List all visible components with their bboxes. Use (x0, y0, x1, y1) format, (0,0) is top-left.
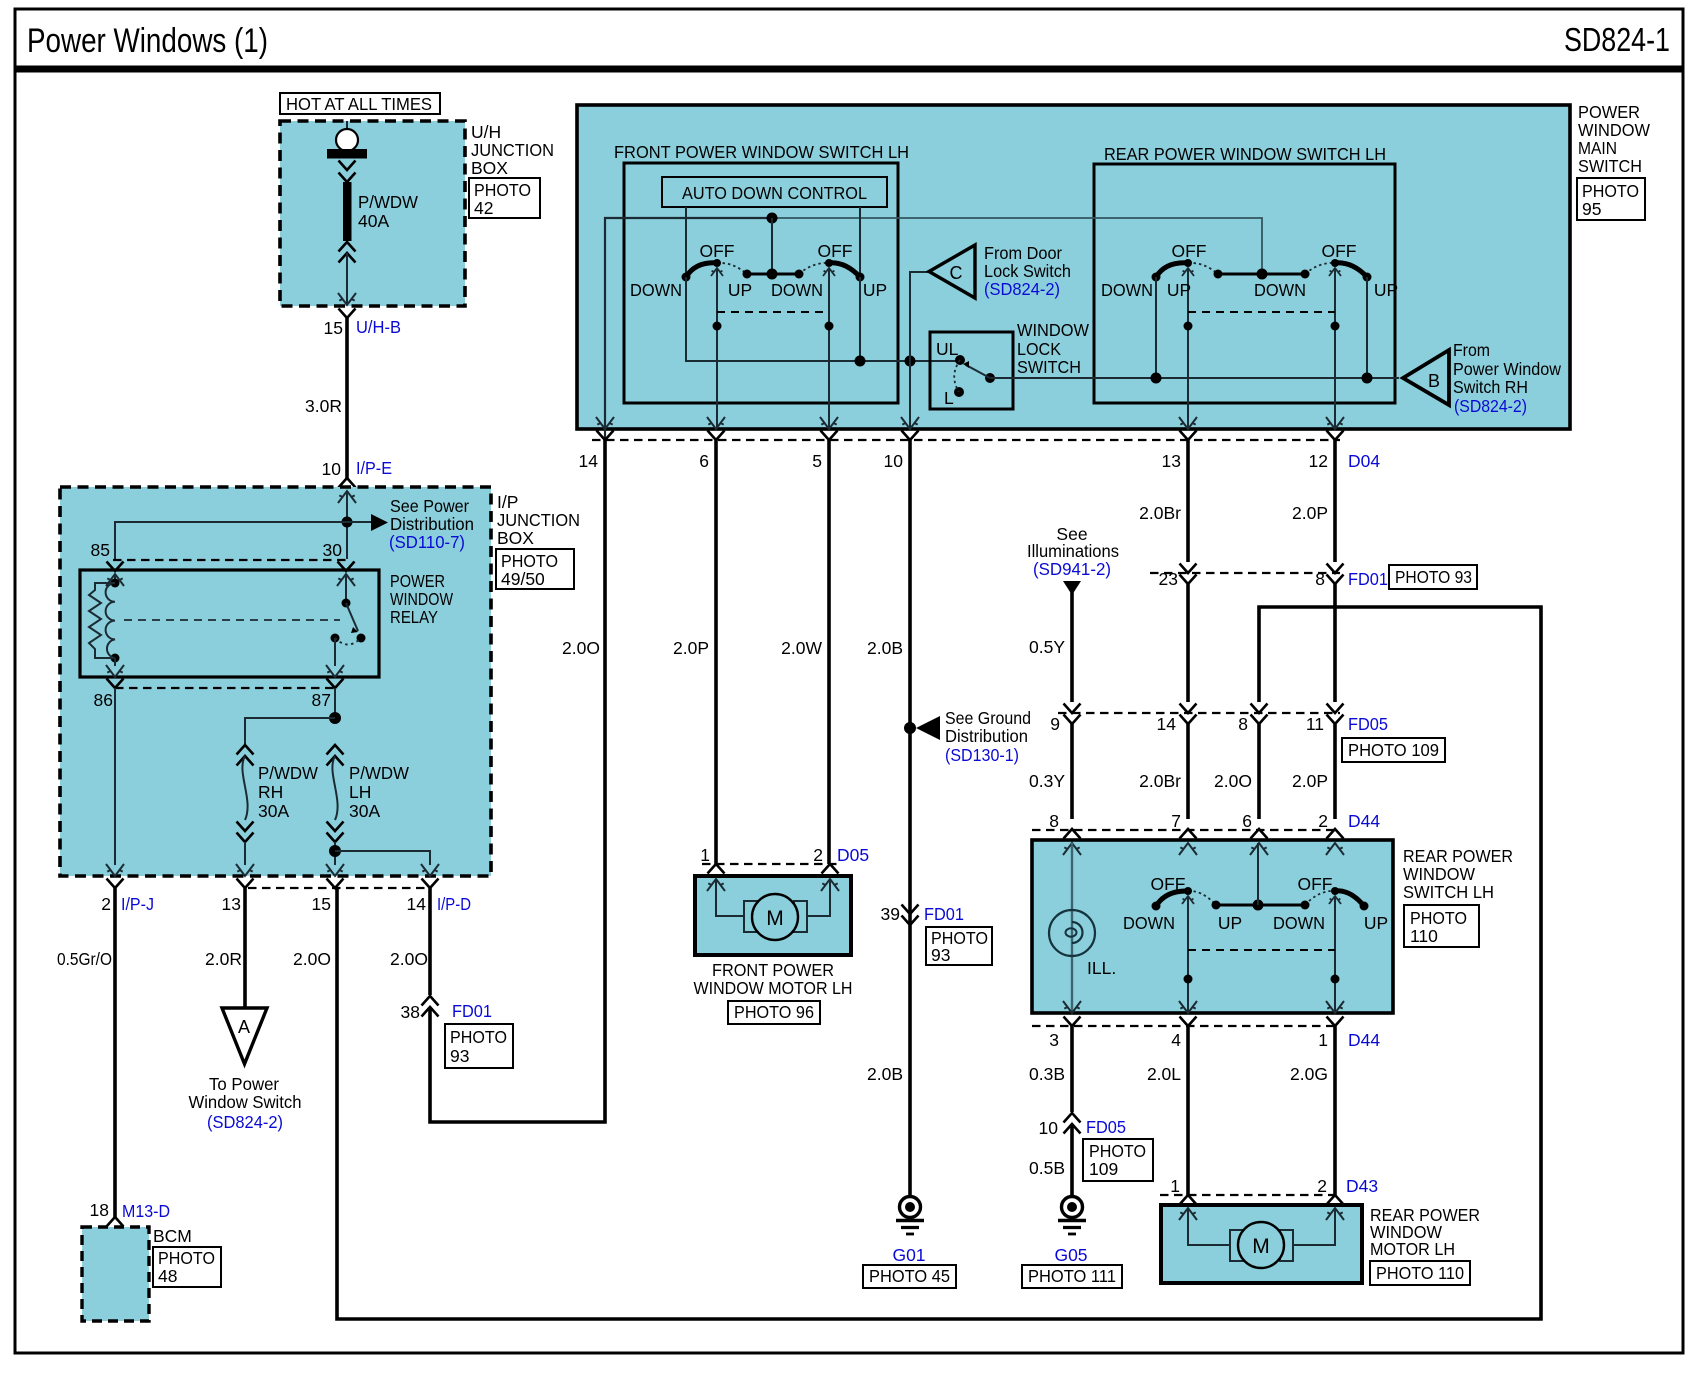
svg-text:9: 9 (1050, 714, 1060, 734)
D44 connector row dashed (1032, 829, 1340, 831)
svg-text:WINDOW: WINDOW (1017, 320, 1089, 340)
svg-text:UP: UP (728, 280, 752, 300)
svg-text:86: 86 (94, 690, 113, 710)
title separator line (15, 66, 1683, 73)
svg-text:OFF: OFF (1322, 241, 1357, 261)
D04 chevron pin6 (708, 431, 725, 441)
svg-text:30A: 30A (258, 801, 289, 821)
I/P exit arrow pin 15 (326, 864, 344, 876)
triangle A to power window switch (222, 1008, 267, 1064)
rear motor photo box PHOTO 110 (1370, 1261, 1470, 1285)
svg-text:49/50: 49/50 (501, 569, 545, 589)
svg-text:I/P: I/P (497, 492, 518, 512)
svg-text:HOT AT ALL TIMES: HOT AT ALL TIMES (286, 94, 432, 114)
D05 chevron pin1 (708, 864, 725, 874)
svg-text:2: 2 (813, 845, 823, 865)
svg-text:2.0L: 2.0L (1147, 1064, 1181, 1084)
svg-text:FD05: FD05 (1086, 1117, 1126, 1137)
ground distribution tee dot (904, 722, 916, 734)
rear lower feed wire pin6 (1257, 843, 1259, 905)
rear switch exit arrow 3 (1063, 1001, 1081, 1013)
front motor entry arrow 2 (821, 879, 839, 891)
relay exit arrow 87 (326, 665, 344, 677)
rear upper down-contact bus dot (1151, 373, 1162, 384)
svg-text:WINDOW: WINDOW (1578, 120, 1650, 140)
D43 chevron pin2 (1327, 1195, 1344, 1205)
relay switch common lead (345, 574, 347, 603)
svg-text:MOTOR LH: MOTOR LH (1370, 1239, 1455, 1259)
front middle contact bar (747, 273, 799, 276)
battery feed stub (346, 121, 348, 130)
svg-text:42: 42 (474, 198, 493, 218)
svg-text:UP: UP (1364, 913, 1388, 933)
svg-text:13: 13 (222, 894, 241, 914)
rear motor lead 1 (1188, 1208, 1230, 1245)
svg-text:2.0O: 2.0O (293, 949, 331, 969)
wire feed to rear switch gray (772, 218, 1262, 274)
HOT AT ALL TIMES box (280, 93, 440, 114)
bus tee dot pin10 (905, 356, 916, 367)
svg-text:93: 93 (931, 945, 950, 965)
svg-text:BOX: BOX (497, 528, 534, 548)
entry arrow into I/P box (338, 491, 356, 503)
svg-text:OFF: OFF (700, 241, 735, 261)
ILL lamp filament inner (1066, 928, 1077, 936)
rear motor brush right (1280, 1230, 1293, 1261)
svg-text:Distribution: Distribution (945, 726, 1028, 746)
svg-text:7: 7 (1171, 811, 1181, 831)
rear lower right toggle lever arc (1334, 891, 1364, 906)
D43 connector row dashed (1160, 1194, 1340, 1196)
relay lever arrowhead (351, 627, 358, 633)
front mechanical dashed link (717, 311, 829, 313)
svg-text:L: L (944, 388, 954, 408)
svg-text:PHOTO: PHOTO (158, 1248, 215, 1268)
svg-text:2.0O: 2.0O (1214, 771, 1252, 791)
wire split to RH fuse (245, 718, 335, 744)
svg-text:D43: D43 (1346, 1176, 1378, 1196)
FD05-9 chevrons (1064, 704, 1081, 725)
svg-text:85: 85 (91, 540, 110, 560)
G01 photo box PHOTO 45 (863, 1265, 956, 1288)
chevrons below fuse (339, 242, 356, 252)
connector FD01-38 chevrons (422, 996, 439, 1017)
svg-text:PHOTO 96: PHOTO 96 (734, 1002, 814, 1022)
wire 2.0P upper (1333, 440, 1337, 562)
svg-text:8: 8 (1238, 714, 1248, 734)
relay mechanical dashed link (124, 619, 340, 621)
rear upper mechanical dashed link (1188, 311, 1335, 313)
relay pin 86 chevron (107, 679, 124, 689)
front right link dot (825, 322, 834, 331)
relay entry arrow 85 (106, 574, 124, 586)
main switch exit arrows (596, 417, 1344, 429)
wire 3.0R (345, 318, 349, 478)
relay coil bottom dot (111, 654, 120, 663)
svg-text:A: A (238, 1017, 250, 1037)
rear power window switch LH box (1032, 840, 1393, 1013)
svg-text:To Power: To Power (209, 1074, 279, 1094)
wire 2.0O pin 14 riser (428, 888, 432, 995)
bus tee dot up-contact (855, 356, 866, 367)
lock switch UL contact dot (955, 355, 965, 365)
FD01-8 chevrons (1327, 564, 1344, 585)
wire 0.3Y lower (1070, 724, 1074, 819)
svg-text:14: 14 (1157, 714, 1177, 734)
svg-text:2.0Br: 2.0Br (1139, 503, 1181, 523)
svg-text:JUNCTION: JUNCTION (497, 510, 580, 530)
D44 chevron pin6 (1251, 829, 1268, 839)
svg-text:P/WDW: P/WDW (358, 192, 418, 212)
connector FD05-10 chevrons (1064, 1113, 1081, 1134)
svg-text:(SD130-1): (SD130-1) (945, 745, 1019, 765)
connector M13-D chevron (107, 1217, 124, 1227)
svg-text:U/H-B: U/H-B (356, 317, 401, 337)
fuse RH label (258, 763, 318, 821)
svg-text:PHOTO: PHOTO (1582, 181, 1639, 201)
svg-text:RELAY: RELAY (390, 607, 438, 627)
svg-text:0.5Y: 0.5Y (1029, 637, 1065, 657)
svg-text:DOWN: DOWN (1101, 280, 1153, 300)
svg-text:8: 8 (1049, 811, 1059, 831)
rear upper up-contact bus dot (1362, 373, 1373, 384)
fuse P/WDW RH 30A (237, 745, 254, 842)
front up-contact wire (859, 277, 861, 361)
wire 2.0Br lower (1186, 724, 1190, 819)
svg-text:LOCK: LOCK (1017, 339, 1061, 359)
To Power Window Switch label (189, 1074, 302, 1132)
rear upper middle contact bar (1218, 273, 1305, 276)
front motor photo box PHOTO 96 (728, 1001, 820, 1024)
svg-text:(SD824-2): (SD824-2) (984, 279, 1060, 299)
I/P photo box PHOTO 49/50 (496, 549, 574, 589)
svg-text:39: 39 (881, 904, 900, 924)
See Ground Distribution arrow (916, 716, 940, 740)
svg-text:30: 30 (323, 540, 343, 560)
front down-contact wire to bus (686, 277, 958, 361)
svg-text:(SD941-2): (SD941-2) (1033, 559, 1111, 579)
svg-text:UP: UP (863, 280, 887, 300)
svg-text:5: 5 (812, 451, 822, 471)
rear motor entry arrow 1 (1179, 1208, 1197, 1220)
svg-text:OFF: OFF (818, 241, 853, 261)
svg-text:PHOTO: PHOTO (501, 551, 558, 571)
svg-text:REAR POWER WINDOW SWITCH LH: REAR POWER WINDOW SWITCH LH (1104, 144, 1386, 164)
rear switch entry arrow 2 (1326, 843, 1344, 855)
rear lower left toggle dotted arc (1188, 891, 1216, 905)
svg-text:FD05: FD05 (1348, 714, 1388, 734)
svg-text:I/P-J: I/P-J (121, 894, 154, 914)
svg-text:1: 1 (700, 845, 710, 865)
battery circle (336, 129, 358, 151)
svg-text:0.3B: 0.3B (1029, 1064, 1065, 1084)
svg-text:2.0P: 2.0P (1292, 771, 1328, 791)
wire LH fuse to split dot (334, 842, 336, 865)
front motor lead 2 (806, 879, 830, 916)
svg-text:PHOTO: PHOTO (450, 1027, 507, 1047)
svg-text:2.0R: 2.0R (205, 949, 242, 969)
FD05 photo box PHOTO 109 (1342, 738, 1445, 762)
svg-text:SD824-1: SD824-1 (1564, 21, 1670, 58)
svg-text:2.0B: 2.0B (867, 638, 903, 658)
From Power Window Switch RH label (1453, 340, 1561, 416)
window lock switch label (1017, 320, 1089, 377)
svg-text:PHOTO 110: PHOTO 110 (1376, 1263, 1464, 1283)
wire 2.0W pin5 to D05 (827, 440, 831, 864)
front motor circle (752, 894, 798, 940)
wire fuse to box exit (346, 253, 348, 305)
ILL lamp circle (1049, 910, 1095, 956)
svg-text:REAR POWER: REAR POWER (1403, 846, 1513, 866)
wire RH fuse to exit 13 (244, 842, 246, 865)
wire 0.5B (1070, 1124, 1074, 1196)
connector chevron pin 13 (237, 879, 254, 889)
D44 chevron pin2 (1327, 829, 1344, 839)
svg-text:DOWN: DOWN (1254, 280, 1306, 300)
svg-text:FRONT POWER: FRONT POWER (712, 960, 834, 980)
I/P bottom connector row dashed (248, 887, 428, 889)
wire 86 to I/P exit (114, 688, 116, 865)
front switch inner box (624, 163, 898, 403)
relay resistor (89, 583, 115, 658)
See Illuminations source triangle (1063, 581, 1081, 595)
ILL lamp feed wire (1071, 843, 1073, 1013)
U/H junction box label (471, 122, 554, 178)
D04 connector row dashed (592, 439, 1340, 441)
D44 lower connector row dashed (1032, 1025, 1340, 1027)
D43 chevron pin1 (1180, 1195, 1197, 1205)
I/P junction box (60, 487, 491, 876)
svg-text:2.0B: 2.0B (867, 1064, 903, 1084)
front left link dot (713, 322, 722, 331)
svg-text:WINDOW MOTOR LH: WINDOW MOTOR LH (694, 978, 853, 998)
svg-text:12: 12 (1309, 451, 1328, 471)
svg-text:PHOTO 111: PHOTO 111 (1028, 1266, 1116, 1286)
FD05-10 photo box PHOTO 109 (1083, 1139, 1153, 1181)
svg-text:87: 87 (312, 690, 331, 710)
lock switch output bus to B (990, 377, 1399, 379)
I/P exit arrow pin 13 (236, 864, 254, 876)
svg-text:3: 3 (1049, 1030, 1059, 1050)
rear switch inner box (1094, 164, 1395, 403)
svg-text:From: From (1453, 340, 1490, 360)
connector I/P-D chevron (422, 879, 439, 889)
svg-text:FRONT POWER WINDOW SWITCH LH: FRONT POWER WINDOW SWITCH LH (614, 142, 909, 162)
svg-text:Illuminations: Illuminations (1027, 541, 1119, 561)
svg-text:(SD110-7): (SD110-7) (389, 532, 465, 552)
svg-text:13: 13 (1162, 451, 1181, 471)
wire tee to See Power Distribution (347, 521, 371, 523)
svg-text:FD01: FD01 (452, 1001, 492, 1021)
wire 0.5Gr/O (113, 888, 117, 1218)
svg-text:POWER: POWER (1578, 102, 1640, 122)
svg-text:2.0P: 2.0P (1292, 503, 1328, 523)
D44 lower chevron pin3 (1064, 1017, 1081, 1027)
svg-text:(SD824-2): (SD824-2) (207, 1112, 283, 1132)
rear lower pin1 wire (1334, 896, 1336, 1013)
rear motor lead 2 (1292, 1208, 1335, 1245)
svg-text:(SD824-2): (SD824-2) (1454, 396, 1527, 416)
svg-text:Switch RH: Switch RH (1453, 377, 1528, 397)
svg-text:PHOTO 109: PHOTO 109 (1348, 740, 1439, 760)
relay entry arrow 30 (337, 574, 355, 586)
svg-text:110: 110 (1410, 926, 1438, 946)
svg-text:I/P-D: I/P-D (437, 894, 471, 914)
wire 2.0O pin 15 long loop (337, 607, 1541, 1319)
wire FD01-38 to main switch pin 14 (430, 440, 605, 1122)
U/H photo box PHOTO 42 (469, 178, 540, 218)
battery bar (327, 149, 367, 159)
wire 2.0G (1333, 1026, 1337, 1195)
D04 chevron pin14 (597, 431, 614, 441)
rear lower pin4 wire (1187, 896, 1189, 1013)
svg-text:U/H: U/H (471, 122, 501, 142)
svg-text:P/WDW: P/WDW (258, 763, 318, 783)
svg-text:0.5Gr/O: 0.5Gr/O (57, 949, 112, 969)
svg-text:MAIN: MAIN (1578, 138, 1617, 158)
FD01 connector row dashed (1150, 572, 1340, 574)
relay pin 30 chevron (338, 562, 355, 572)
wire 2.0B pin10 to ground (908, 440, 912, 1196)
rear pin13 wire (1187, 268, 1189, 429)
rear power window motor box (1161, 1205, 1362, 1283)
relay coil top dot (111, 579, 120, 588)
svg-text:SWITCH LH: SWITCH LH (1403, 882, 1494, 902)
front contact dots (682, 259, 865, 282)
svg-text:PHOTO: PHOTO (1410, 908, 1467, 928)
front motor entry arrow 1 (707, 879, 725, 891)
front left pivot arrow (711, 268, 723, 276)
fuse LH label (349, 763, 409, 821)
rear switch entry arrow 6 (1250, 843, 1268, 855)
relay dotted throw arc (335, 638, 361, 645)
rear switch photo box PHOTO 110 (1404, 905, 1479, 947)
D04 chevron pin13 (1180, 431, 1197, 441)
rear motor circle (1238, 1222, 1284, 1268)
ground G05 (1058, 1197, 1086, 1235)
svg-text:B: B (1428, 371, 1440, 391)
svg-text:8: 8 (1315, 569, 1325, 589)
See Power Distribution arrow (371, 514, 388, 531)
FD05-8 chevrons (1251, 704, 1268, 725)
rear upper contact dots (1152, 259, 1372, 282)
svg-text:4: 4 (1171, 1030, 1181, 1050)
svg-text:2: 2 (1317, 1176, 1327, 1196)
svg-text:D44: D44 (1348, 1030, 1380, 1050)
auto down control box (662, 177, 887, 207)
front pin6 wire (716, 268, 718, 429)
svg-text:FD01: FD01 (1348, 569, 1388, 589)
fuse split dot (329, 712, 341, 724)
D04 chevron pin10 (902, 431, 919, 441)
FD01-39 photo box PHOTO 93 (926, 927, 992, 965)
svg-text:2.0P: 2.0P (673, 638, 709, 658)
rear pin12 wire (1334, 268, 1336, 429)
wire 2.0P lower (1333, 724, 1337, 819)
main switch label POWER WINDOW MAIN SWITCH (1578, 102, 1650, 176)
fuse label P/WDW 40A (358, 192, 418, 231)
wire entry to node (346, 491, 348, 559)
front motor brush left (744, 901, 757, 932)
main switch photo box PHOTO 95 (1577, 178, 1645, 220)
rear lower middle contact bar (1216, 904, 1305, 907)
svg-text:WINDOW: WINDOW (390, 589, 453, 609)
wire 2.0P middle (1333, 584, 1337, 702)
relay common dot (342, 599, 351, 608)
svg-text:95: 95 (1582, 199, 1601, 219)
relay coil exit lead (114, 658, 116, 666)
FD01 photo box PHOTO 93 right (1389, 565, 1477, 589)
svg-text:10: 10 (1039, 1118, 1059, 1138)
svg-text:OFF: OFF (1172, 241, 1207, 261)
svg-text:DOWN: DOWN (771, 280, 823, 300)
svg-text:PHOTO: PHOTO (474, 180, 531, 200)
svg-text:2.0Br: 2.0Br (1139, 771, 1181, 791)
D05 chevron pin2 (822, 864, 839, 874)
svg-text:OFF: OFF (1298, 874, 1333, 894)
rear lower contact dots (1152, 887, 1369, 911)
rear switch entry arrow 7 (1179, 843, 1197, 855)
svg-text:M: M (1252, 1235, 1270, 1258)
ground G01 (896, 1197, 924, 1235)
svg-text:2.0O: 2.0O (562, 638, 600, 658)
rear lower right pivot arrow (1329, 896, 1341, 904)
svg-text:11: 11 (1306, 714, 1324, 734)
relay exit arrow 86 (106, 665, 124, 677)
rear switch entry arrow 8 (1063, 843, 1081, 855)
lock switch L contact dot (954, 387, 964, 397)
svg-text:Power Windows (1): Power Windows (1) (27, 22, 268, 60)
FD05-11 chevrons (1327, 704, 1344, 725)
relay lever (346, 603, 358, 631)
lock switch lever arrowhead (963, 361, 969, 368)
svg-text:LH: LH (349, 782, 371, 802)
svg-text:I/P-E: I/P-E (356, 458, 392, 478)
lock switch dotted throw arc (954, 360, 960, 392)
ADC right lead (859, 207, 861, 277)
D44 lower chevron pin4 (1180, 1017, 1197, 1027)
svg-text:G01: G01 (892, 1245, 925, 1265)
svg-text:1: 1 (1170, 1176, 1180, 1196)
wire 87 to fuse split (334, 688, 336, 718)
rear upper left toggle lever arc (1156, 263, 1189, 277)
svg-text:WINDOW: WINDOW (1403, 864, 1475, 884)
svg-text:ILL.: ILL. (1087, 958, 1116, 978)
svg-text:30A: 30A (349, 801, 380, 821)
node distribution tee dot (342, 517, 353, 528)
wire 2.0O lower (1257, 724, 1261, 819)
front motor lead 1 (716, 879, 744, 916)
front left toggle lever arc (686, 263, 718, 277)
svg-text:AUTO DOWN CONTROL: AUTO DOWN CONTROL (682, 183, 867, 203)
rear switch exit arrow 1 (1326, 1001, 1344, 1013)
svg-text:18: 18 (90, 1200, 109, 1220)
FD01-38 photo box PHOTO 93 (445, 1024, 513, 1068)
front motor label (694, 960, 853, 998)
BCM photo box PHOTO 48 (153, 1247, 221, 1287)
wire 2.0L (1186, 1026, 1190, 1195)
svg-text:SWITCH: SWITCH (1017, 357, 1081, 377)
rear lower left link dot (1184, 975, 1193, 984)
rear motor label (1370, 1205, 1480, 1259)
svg-text:DOWN: DOWN (630, 280, 682, 300)
fuse P/WDW LH 30A (327, 745, 344, 842)
svg-text:40A: 40A (358, 211, 389, 231)
front right pivot arrow (823, 268, 835, 276)
rear upper right toggle dotted arc (1305, 263, 1335, 274)
svg-text:15: 15 (324, 318, 343, 338)
relay pin 87 chevron (327, 679, 344, 689)
